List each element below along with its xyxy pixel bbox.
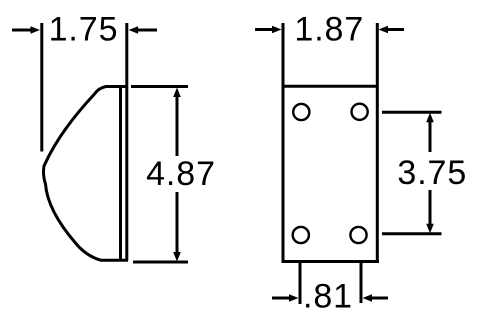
dim 4.87 dimension line lower segment with down arrow <box>173 192 181 262</box>
dim 1.75 right arrow <box>129 26 157 34</box>
right view: plate left edge / dim 1.87 left extension line <box>282 23 285 262</box>
dim .81 left extension line <box>299 263 302 304</box>
hole top-right <box>352 104 368 120</box>
dim 1.75 left arrow <box>12 26 40 34</box>
dim 4.87 dimension line upper segment with up arrow <box>173 88 181 157</box>
svg-text:1.87: 1.87 <box>294 10 364 48</box>
left view: right edge / dim 1.75 right extension line <box>125 23 128 261</box>
dim 1.87 left arrow <box>255 26 282 34</box>
svg-text:.81: .81 <box>303 278 353 313</box>
dim 4.87 top extension line <box>131 85 188 88</box>
dim 1.87 right arrow <box>379 26 405 34</box>
dim 3.75 dimension line lower segment with down arrow <box>426 190 434 233</box>
hole top-left <box>293 104 309 120</box>
right view: plate top edge <box>283 85 377 88</box>
dim 3.75 dimension line upper segment with up arrow <box>426 113 434 152</box>
dim 1.75 left extension line <box>40 23 43 152</box>
hole bottom-right <box>350 227 366 243</box>
svg-text:1.75: 1.75 <box>49 10 119 48</box>
right view: plate bottom edge <box>282 260 380 263</box>
dim 3.75 top extension line <box>382 111 442 114</box>
dim 3.75 bottom extension line <box>382 232 442 235</box>
dim .81 right arrow <box>363 294 389 302</box>
hole bottom-left <box>293 227 309 243</box>
left view: lamp side-profile outline <box>44 87 129 261</box>
dim .81 right extension line <box>360 263 363 303</box>
dim .81 left arrow <box>272 294 299 302</box>
dim 4.87 bottom extension line <box>133 261 188 264</box>
svg-text:4.87: 4.87 <box>146 155 216 193</box>
right view: plate right edge / dim 1.87 right extension line <box>376 23 379 262</box>
left view: lens inner edge line <box>119 87 122 261</box>
svg-text:3.75: 3.75 <box>397 154 467 192</box>
